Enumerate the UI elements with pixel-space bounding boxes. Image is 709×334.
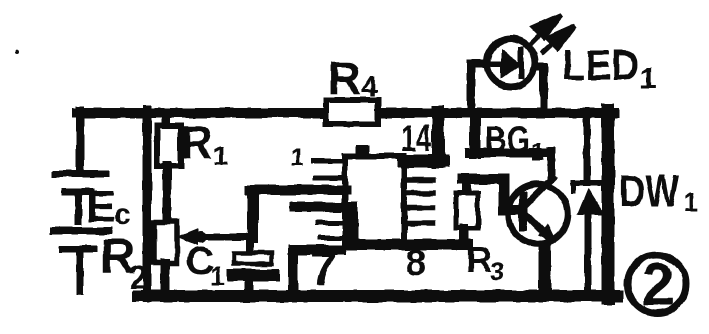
svg-text:3: 3 [490,256,504,286]
svg-text:1: 1 [683,187,699,218]
svg-text:8: 8 [406,242,426,283]
svg-text:R: R [466,239,492,280]
svg-text:1: 1 [210,261,224,291]
svg-text:c: c [114,198,131,231]
svg-text:R: R [180,116,213,168]
svg-text:1: 1 [213,140,229,171]
svg-text:1: 1 [290,144,304,172]
svg-text:1: 1 [531,139,544,166]
svg-text:14: 14 [401,118,431,159]
svg-text:R: R [328,52,361,104]
svg-text:4: 4 [361,70,378,103]
svg-text:E: E [86,181,116,232]
svg-text:LED: LED [562,41,639,90]
svg-text:2: 2 [641,251,674,318]
svg-text:2: 2 [129,259,147,295]
svg-text:1: 1 [640,62,657,95]
svg-text:BG: BG [485,119,530,160]
svg-text:DW: DW [619,165,679,217]
svg-text:7: 7 [310,243,337,296]
